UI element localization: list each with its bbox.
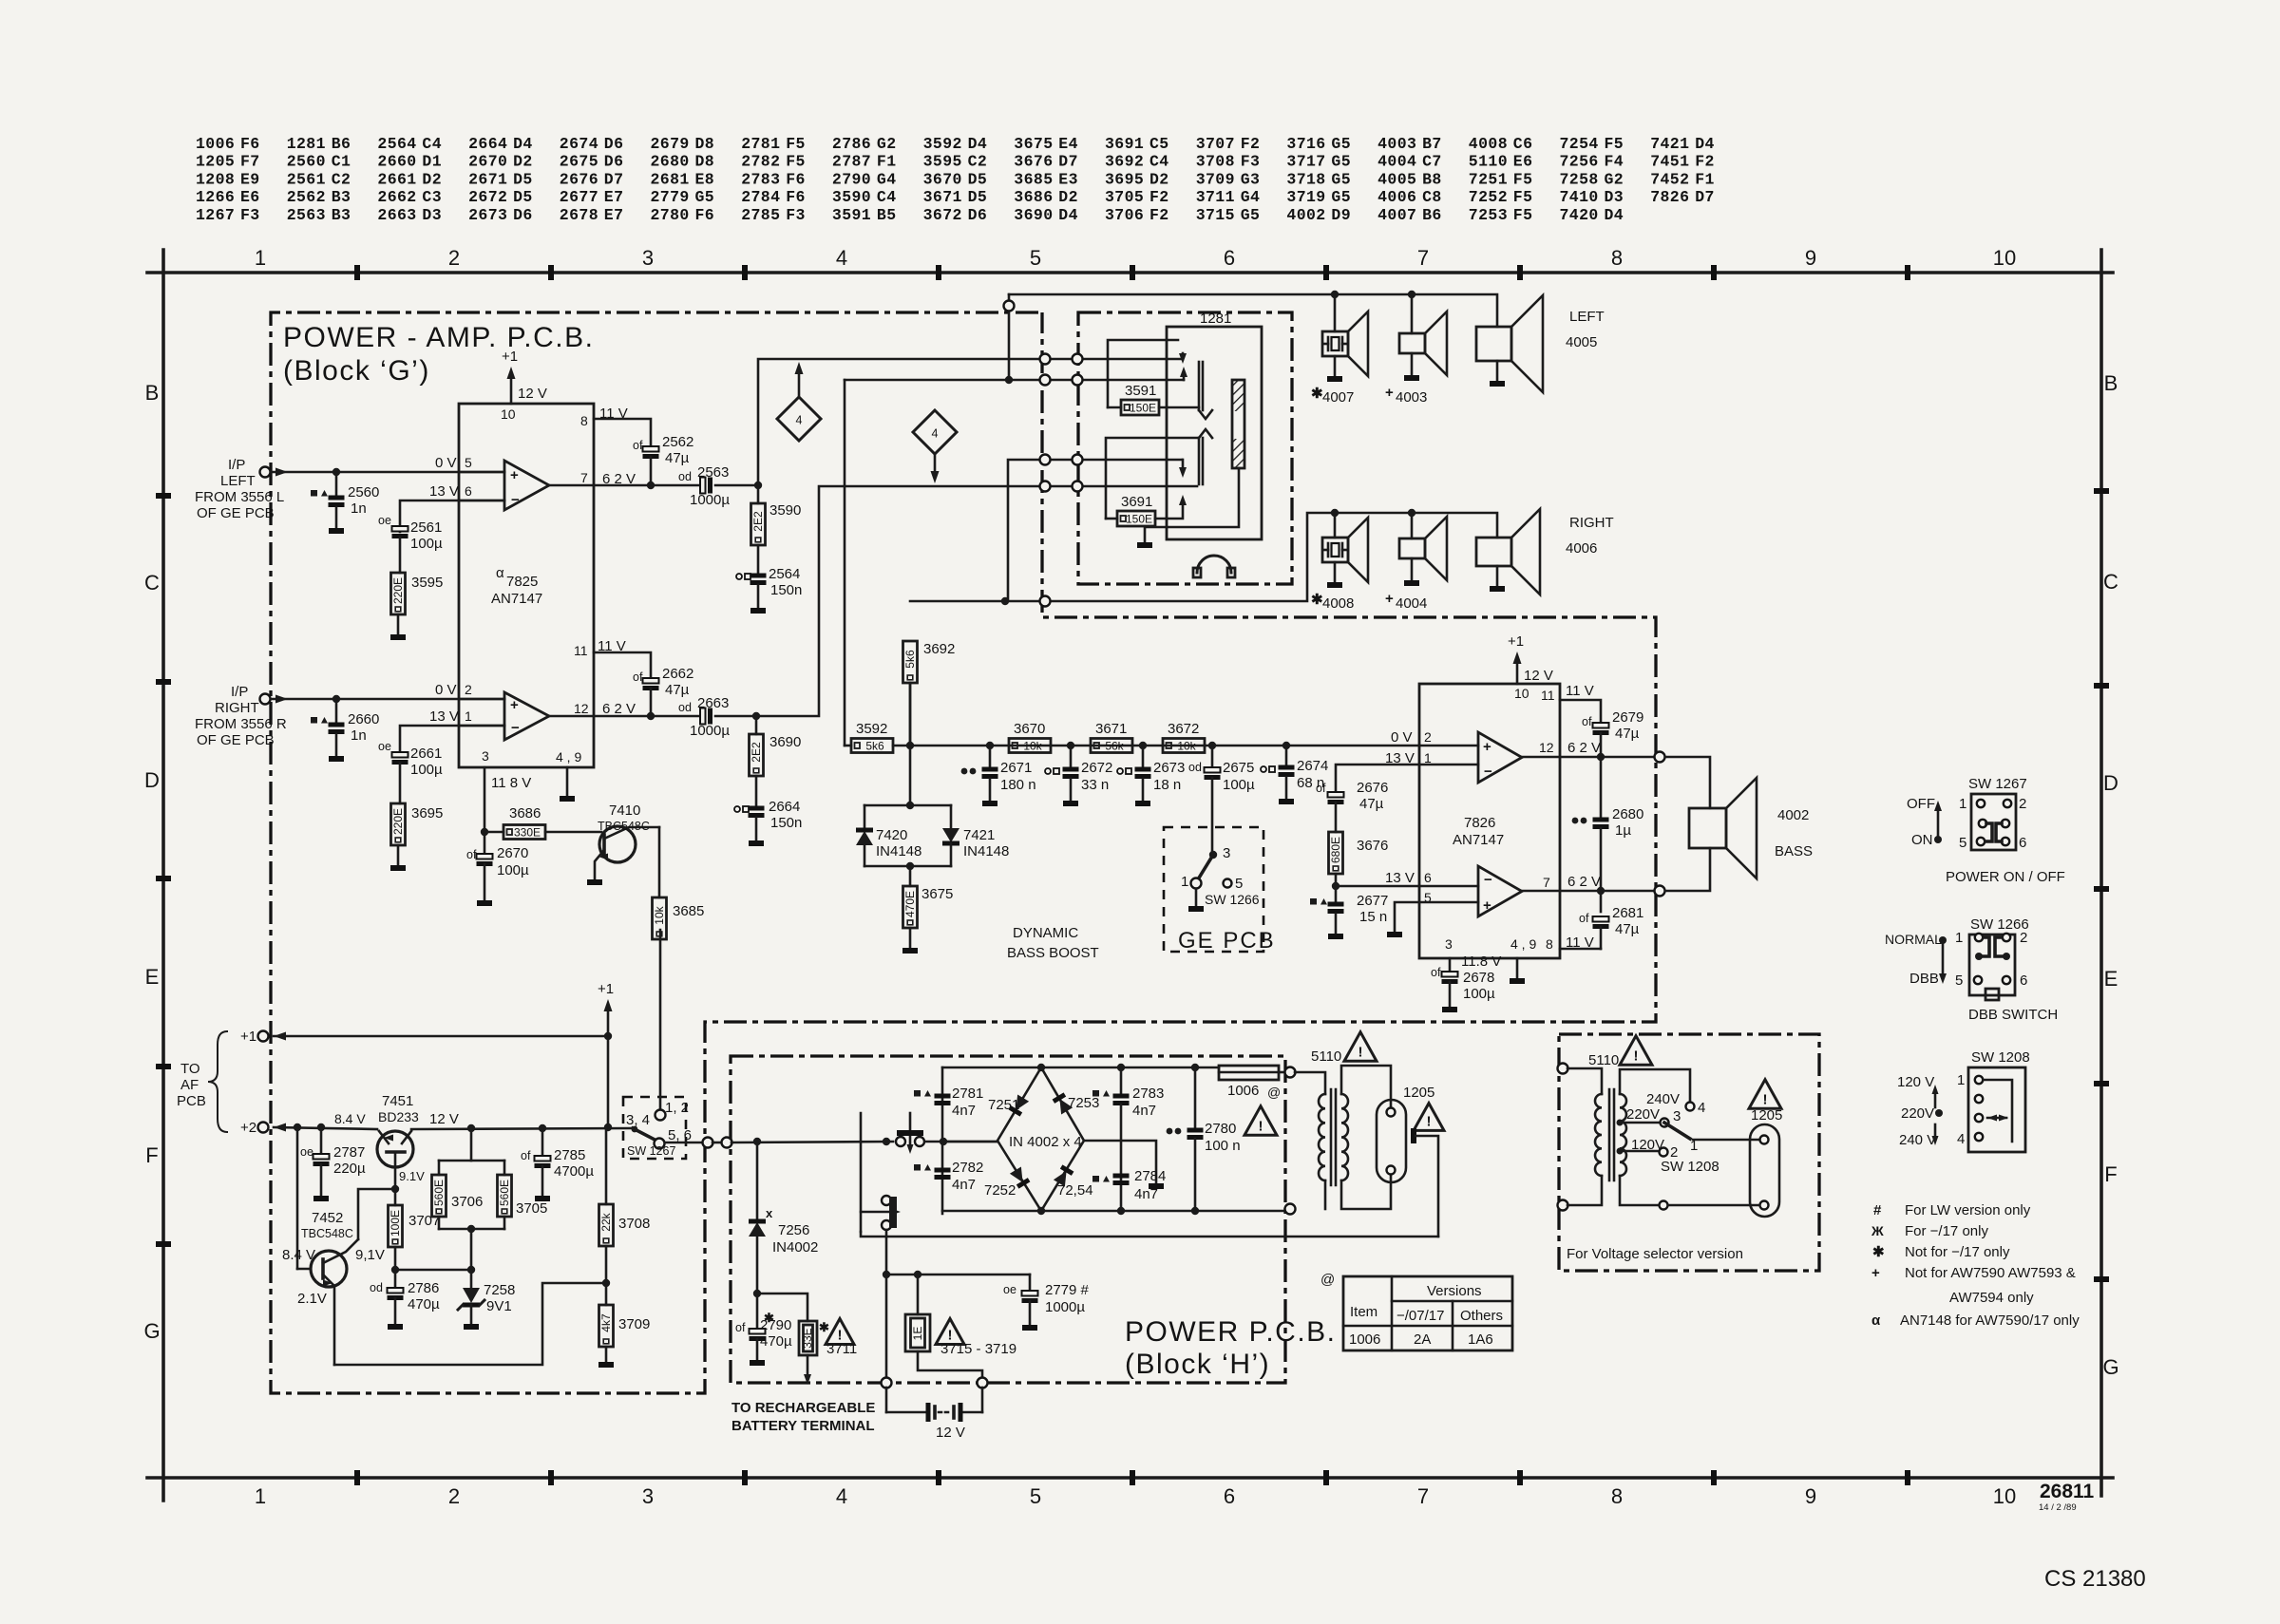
svg-text:7: 7 — [1417, 1484, 1429, 1508]
diode 7420 IN4148 — [864, 805, 866, 828]
svg-text:6: 6 — [2019, 835, 2026, 851]
svg-text:+: + — [510, 697, 519, 713]
svg-text:3715: 3715 — [1196, 206, 1235, 224]
svg-text:2676: 2676 — [560, 170, 598, 188]
bass speaker 4002 — [1689, 808, 1726, 848]
svg-text:C3: C3 — [422, 188, 442, 206]
svg-text:3685: 3685 — [1014, 170, 1053, 188]
svg-text:IN4148: IN4148 — [876, 843, 921, 859]
svg-text:3686: 3686 — [1014, 188, 1053, 206]
plug earth tab — [1411, 1128, 1416, 1143]
svg-text:C8: C8 — [1422, 188, 1442, 206]
pin 4,9 ground — [566, 767, 569, 796]
svg-text:F5: F5 — [786, 135, 806, 153]
POWER-AMP PCB Block G boundary — [271, 312, 1656, 1393]
svg-text:7258: 7258 — [1560, 170, 1599, 188]
svg-text:2785: 2785 — [741, 206, 780, 224]
svg-text:13 V: 13 V — [1385, 870, 1415, 886]
svg-text:3706: 3706 — [451, 1194, 483, 1210]
svg-text:3692: 3692 — [923, 641, 955, 657]
svg-text:2561: 2561 — [287, 170, 326, 188]
op-amp U7825b — [504, 692, 549, 740]
svg-text:3691: 3691 — [1121, 494, 1152, 510]
svg-text:12 V: 12 V — [1524, 668, 1553, 684]
svg-text:7: 7 — [1417, 246, 1429, 270]
capacitor 2677 15n — [1335, 886, 1338, 903]
svg-text:2664: 2664 — [468, 135, 507, 153]
svg-text:4006: 4006 — [1377, 188, 1416, 206]
svg-text:D7: D7 — [604, 170, 624, 188]
svg-text:D6: D6 — [513, 206, 533, 224]
wire right speaker feed (ch2) — [756, 486, 1197, 716]
svg-text:F7: F7 — [240, 153, 260, 171]
svg-text:D9: D9 — [1331, 206, 1351, 224]
svg-text:of: of — [1579, 912, 1589, 925]
svg-text:2664: 2664 — [769, 799, 800, 815]
wire pin11 to 2662 — [594, 652, 651, 676]
svg-text:1: 1 — [465, 708, 472, 724]
svg-text:NORMAL: NORMAL — [1885, 932, 1942, 947]
svg-text:@: @ — [1267, 1085, 1281, 1100]
IC U7825 AN7147 — [459, 404, 594, 767]
svg-text:BD233: BD233 — [378, 1109, 419, 1124]
svg-text:1000µ: 1000µ — [690, 723, 730, 739]
svg-text:F2: F2 — [1241, 135, 1261, 153]
svg-text:1205: 1205 — [196, 153, 235, 171]
svg-text:7420: 7420 — [1560, 206, 1599, 224]
svg-text:3595: 3595 — [923, 153, 962, 171]
svg-text:(Block ‘H’): (Block ‘H’) — [1125, 1349, 1270, 1380]
svg-text:G: G — [2102, 1355, 2118, 1379]
svg-text:2: 2 — [448, 246, 460, 270]
svg-text:220V: 220V — [1626, 1106, 1660, 1123]
svg-text:TBC548C: TBC548C — [598, 820, 650, 833]
svg-text:47µ: 47µ — [1359, 796, 1384, 812]
svg-text:E7: E7 — [604, 188, 624, 206]
svg-text:2: 2 — [1424, 729, 1432, 745]
svg-text:+: + — [1483, 739, 1491, 755]
wire emitter 7452 to 3708/3709 node — [334, 1283, 606, 1365]
svg-text:3671: 3671 — [1095, 721, 1127, 737]
svg-text:4002: 4002 — [1777, 807, 1809, 823]
svg-text:1, 2: 1, 2 — [665, 1100, 689, 1116]
capacitor 2781 4n7 — [914, 1090, 921, 1097]
svg-text:22k: 22k — [599, 1212, 613, 1231]
svg-text:7252: 7252 — [984, 1182, 1016, 1199]
resistor 3690 2E2 — [755, 716, 758, 734]
svg-text:For LW version only: For LW version only — [1905, 1202, 2031, 1218]
svg-text:of: of — [521, 1149, 531, 1162]
svg-text:D2: D2 — [1149, 170, 1169, 188]
svg-text:2680: 2680 — [651, 153, 690, 171]
speaker 4003 — [1411, 294, 1414, 333]
svg-text:2781: 2781 — [741, 135, 780, 153]
svg-text:5: 5 — [1235, 876, 1243, 892]
resistor 3595 220E — [391, 573, 406, 614]
svg-text:SW 1208: SW 1208 — [1971, 1049, 2030, 1066]
jack sleeve ground — [1145, 468, 1239, 542]
resistor 3676 680E — [1329, 832, 1343, 874]
svg-text:D4: D4 — [968, 135, 988, 153]
svg-text:od: od — [678, 470, 692, 483]
svg-text:POWER - AMP. P.C.B.: POWER - AMP. P.C.B. — [283, 322, 594, 353]
svg-text:B7: B7 — [1422, 135, 1442, 153]
wire +2 rail — [274, 1127, 377, 1129]
svg-text:2783: 2783 — [741, 170, 780, 188]
input terminal I/P LEFT — [260, 467, 271, 478]
svg-text:220E: 220E — [391, 577, 405, 604]
svg-text:E8: E8 — [695, 170, 715, 188]
resistor 3691 150E loop — [1106, 438, 1199, 519]
svg-text:0 V: 0 V — [1391, 729, 1413, 746]
svg-text:D2: D2 — [1058, 188, 1078, 206]
svg-text:3716: 3716 — [1286, 135, 1325, 153]
svg-text:12 V: 12 V — [936, 1425, 965, 1441]
svg-text:3: 3 — [1223, 845, 1230, 861]
svg-text:4n7: 4n7 — [1134, 1186, 1158, 1202]
svg-text:13 V: 13 V — [429, 708, 459, 725]
svg-text:✱: ✱ — [1872, 1244, 1885, 1260]
svg-text:4003: 4003 — [1377, 135, 1416, 153]
svg-text:G5: G5 — [1331, 188, 1351, 206]
svg-text:470E: 470E — [903, 891, 917, 917]
svg-text:F3: F3 — [786, 206, 806, 224]
svg-text:3: 3 — [1445, 936, 1453, 952]
zener diode 7258 9V1 — [470, 1270, 473, 1288]
svg-text:3590: 3590 — [832, 188, 871, 206]
svg-text:3707: 3707 — [408, 1213, 440, 1229]
svg-text:5: 5 — [465, 455, 472, 470]
svg-text:0 V: 0 V — [435, 682, 457, 698]
svg-text:8.4 V: 8.4 V — [334, 1111, 366, 1126]
diode 7253 — [1054, 1095, 1073, 1115]
capacitor 2560 1n — [335, 472, 338, 498]
svg-text:SW 1267: SW 1267 — [627, 1144, 675, 1158]
node ladder 2 — [1067, 742, 1074, 749]
svg-text:2672: 2672 — [1081, 760, 1112, 776]
svg-text:−: − — [1484, 764, 1492, 780]
svg-text:3706: 3706 — [1105, 206, 1144, 224]
svg-text:DBB SWITCH: DBB SWITCH — [1968, 1007, 2058, 1023]
svg-text:!: ! — [1763, 1091, 1768, 1107]
node 3676/2677 — [1332, 882, 1339, 890]
svg-text:D5: D5 — [513, 170, 533, 188]
svg-text:4005: 4005 — [1377, 170, 1416, 188]
svg-text:47µ: 47µ — [665, 682, 690, 698]
battery changeover pole — [860, 1113, 863, 1232]
jack plug hatched contact — [1232, 380, 1244, 468]
svg-text:E: E — [145, 965, 160, 989]
svg-text:3711: 3711 — [826, 1341, 857, 1357]
svg-text:oe: oe — [300, 1145, 313, 1159]
svg-text:G5: G5 — [1331, 153, 1351, 171]
svg-text:PCB: PCB — [177, 1093, 206, 1109]
svg-text:BASS BOOST: BASS BOOST — [1007, 945, 1099, 961]
svg-text:D4: D4 — [1695, 135, 1715, 153]
svg-text:2681: 2681 — [1612, 905, 1643, 921]
svg-text:+: + — [1385, 591, 1394, 607]
svg-text:+: + — [1483, 897, 1491, 914]
svg-text:240 V: 240 V — [1899, 1132, 1936, 1148]
svg-text:3675: 3675 — [921, 886, 953, 902]
svg-text:1000µ: 1000µ — [1045, 1299, 1085, 1315]
svg-text:1006: 1006 — [1227, 1083, 1259, 1099]
svg-text:220E: 220E — [391, 808, 405, 835]
svg-text:2671: 2671 — [1000, 760, 1032, 776]
svg-text:3719: 3719 — [1286, 188, 1325, 206]
svg-text:5: 5 — [1030, 1484, 1041, 1508]
node ladder 1 — [986, 742, 994, 749]
diamond ref 4 right — [913, 410, 957, 454]
svg-text:3591: 3591 — [832, 206, 871, 224]
svg-text:3670: 3670 — [923, 170, 962, 188]
svg-text:18 n: 18 n — [1153, 777, 1181, 793]
wire 3592 to ladder — [844, 380, 846, 746]
terminal +2 to AF PCB — [258, 1123, 269, 1133]
svg-text:1006: 1006 — [196, 135, 235, 153]
op-amp U7826b — [1478, 866, 1522, 916]
svg-text:AW7594 only: AW7594 only — [1949, 1290, 2034, 1306]
svg-text:4002: 4002 — [1286, 206, 1325, 224]
svg-text:E: E — [2104, 967, 2118, 991]
svg-text:C4: C4 — [422, 135, 442, 153]
svg-text:10: 10 — [501, 406, 516, 422]
node ladder 3 — [1139, 742, 1147, 749]
svg-text:5: 5 — [1959, 835, 1966, 851]
svg-text:120V: 120V — [1631, 1137, 1664, 1153]
svg-text:150E: 150E — [1126, 513, 1152, 526]
svg-text:2790: 2790 — [760, 1317, 791, 1333]
svg-text:12 V: 12 V — [429, 1111, 459, 1127]
svg-text:2: 2 — [2020, 930, 2027, 946]
svg-text:✱: ✱ — [819, 1320, 829, 1334]
svg-text:2784: 2784 — [741, 188, 780, 206]
svg-text:4n7: 4n7 — [952, 1103, 976, 1119]
svg-text:2670: 2670 — [497, 845, 528, 861]
svg-text:3708: 3708 — [618, 1216, 650, 1232]
svg-text:2681: 2681 — [651, 170, 690, 188]
svg-text:AN7147: AN7147 — [1453, 832, 1504, 848]
svg-text:3676: 3676 — [1357, 838, 1388, 854]
svg-text:LEFT: LEFT — [1569, 309, 1605, 325]
svg-text:D5: D5 — [513, 188, 533, 206]
svg-text:7825: 7825 — [506, 574, 538, 590]
transistor Q7410 TBC548C — [545, 831, 601, 834]
svg-text:7826: 7826 — [1464, 815, 1495, 831]
resistor 3591 150E loop — [1108, 340, 1178, 407]
svg-text:D8: D8 — [695, 135, 715, 153]
svg-text:C2: C2 — [968, 153, 988, 171]
svg-text:2787: 2787 — [333, 1144, 365, 1161]
svg-text:10: 10 — [1993, 246, 2016, 270]
svg-text:3: 3 — [642, 246, 654, 270]
svg-text:GE PCB: GE PCB — [1178, 928, 1276, 954]
supply +1 arrow pin 10 — [510, 378, 513, 404]
svg-text:10: 10 — [1514, 686, 1529, 701]
svg-text:TO: TO — [180, 1061, 200, 1077]
svg-text:7253: 7253 — [1469, 206, 1508, 224]
svg-text:#: # — [1873, 1202, 1882, 1218]
wire output pin12 — [549, 715, 699, 718]
svg-text:11 V: 11 V — [1566, 683, 1594, 699]
svg-text:2E2: 2E2 — [751, 511, 765, 532]
svg-text:1E: 1E — [911, 1327, 924, 1341]
input terminal I/P RIGHT — [260, 694, 271, 705]
svg-text:2779 #: 2779 # — [1045, 1282, 1090, 1298]
svg-text:7452: 7452 — [312, 1210, 343, 1226]
svg-text:B6: B6 — [1422, 206, 1442, 224]
svg-text:2677: 2677 — [560, 188, 598, 206]
svg-text:2560: 2560 — [287, 153, 326, 171]
border frame — [147, 271, 2113, 274]
svg-text:4004: 4004 — [1377, 153, 1416, 171]
capacitor 2678 100u pin3 — [1449, 958, 1452, 971]
svg-text:100µ: 100µ — [497, 862, 529, 878]
svg-text:2678: 2678 — [560, 206, 598, 224]
svg-text:+: + — [510, 467, 519, 483]
svg-text:3695: 3695 — [1105, 170, 1144, 188]
svg-text:4k7: 4k7 — [599, 1313, 613, 1332]
wire right return to jack — [1008, 460, 1182, 601]
output wire pin7 — [1522, 890, 1658, 893]
svg-text:7251: 7251 — [1469, 170, 1508, 188]
svg-text:F3: F3 — [240, 206, 260, 224]
svg-text:Not for AW7590 AW7593: Not for AW7590 AW7593 & — [1905, 1265, 2076, 1281]
svg-text:F2: F2 — [1149, 188, 1169, 206]
svg-text:2563: 2563 — [697, 464, 729, 481]
svg-text:3709: 3709 — [1196, 170, 1235, 188]
pin 3 lead — [484, 767, 486, 832]
svg-text:of: of — [1431, 966, 1441, 979]
op-amp U7825a — [504, 461, 549, 510]
svg-text:8: 8 — [1611, 1484, 1623, 1508]
svg-text:2780: 2780 — [1205, 1121, 1236, 1137]
DBB tap wire 3692 to right rail — [910, 513, 1497, 601]
svg-text:2562: 2562 — [662, 434, 693, 450]
svg-text:!: ! — [1427, 1113, 1432, 1129]
svg-text:B6: B6 — [332, 135, 351, 153]
svg-text:3595: 3595 — [411, 575, 443, 591]
svg-text:4: 4 — [932, 427, 939, 441]
svg-text:2660: 2660 — [348, 711, 379, 727]
selector bottom wire — [1620, 1176, 1659, 1205]
svg-text:D: D — [144, 768, 160, 792]
left speakers rail — [1009, 294, 1497, 327]
svg-text:100µ: 100µ — [1463, 986, 1495, 1002]
svg-text:od: od — [1188, 761, 1202, 774]
svg-text:470µ: 470µ — [408, 1296, 440, 1312]
capacitor 2660 1n — [335, 699, 338, 725]
svg-text:D6: D6 — [604, 135, 624, 153]
svg-text:3592: 3592 — [856, 721, 887, 737]
svg-text:120 V: 120 V — [1897, 1074, 1934, 1090]
wire 3707 to zener — [394, 1247, 397, 1270]
svg-text:1n: 1n — [351, 500, 367, 517]
svg-text:IN4002: IN4002 — [772, 1239, 818, 1256]
svg-text:6: 6 — [2020, 973, 2027, 989]
node base 7451 — [391, 1185, 399, 1193]
svg-text:560E: 560E — [498, 1180, 511, 1206]
svg-text:AF: AF — [180, 1077, 199, 1093]
svg-text:ON: ON — [1911, 832, 1933, 848]
svg-text:2786: 2786 — [408, 1280, 439, 1296]
terminal +1 to AF PCB — [258, 1031, 269, 1042]
pin 4,9 ground — [1516, 958, 1519, 978]
capacitor 2675 100u — [1211, 746, 1214, 767]
svg-text:0 V: 0 V — [435, 455, 457, 471]
svg-text:100 n: 100 n — [1205, 1138, 1241, 1154]
svg-text:1: 1 — [1957, 1072, 1965, 1088]
svg-text:7: 7 — [1543, 875, 1550, 890]
bridge left wire — [943, 1141, 997, 1143]
svg-text:!: ! — [1259, 1118, 1263, 1134]
svg-text:F5: F5 — [1605, 135, 1624, 153]
svg-text:DYNAMIC: DYNAMIC — [1013, 925, 1078, 941]
svg-text:7420: 7420 — [876, 827, 907, 843]
svg-text:6: 6 — [465, 483, 472, 499]
svg-text:3705: 3705 — [516, 1200, 547, 1217]
svg-text:F4: F4 — [1605, 153, 1624, 171]
svg-text:FROM 3556 L: FROM 3556 L — [195, 489, 284, 505]
svg-text:G5: G5 — [1331, 170, 1351, 188]
resistor 3708 22k — [605, 1127, 608, 1204]
svg-text:330E: 330E — [514, 826, 541, 840]
connector pins at PCB boundary — [1040, 354, 1051, 365]
svg-text:4: 4 — [1957, 1131, 1965, 1147]
svg-text:150n: 150n — [770, 582, 802, 598]
svg-text:2678: 2678 — [1463, 970, 1494, 986]
svg-text:4n7: 4n7 — [952, 1177, 976, 1193]
svg-text:7410: 7410 — [609, 803, 640, 819]
svg-text:BATTERY TERMINAL: BATTERY TERMINAL — [731, 1418, 875, 1434]
IC U7826 AN7147 — [1419, 684, 1560, 958]
svg-text:4 , 9: 4 , 9 — [556, 749, 581, 765]
svg-text:−: − — [511, 720, 520, 736]
node ladder 4 — [1208, 742, 1216, 749]
svg-text:1281: 1281 — [287, 135, 326, 153]
svg-text:7410: 7410 — [1560, 188, 1599, 206]
svg-text:2675: 2675 — [560, 153, 598, 171]
wire SW1267 to block H — [665, 1142, 703, 1144]
svg-text:15 n: 15 n — [1359, 909, 1387, 925]
svg-text:CS 21380: CS 21380 — [2044, 1566, 2146, 1592]
svg-text:F2: F2 — [1149, 206, 1169, 224]
wire pin8 — [1560, 948, 1601, 951]
svg-text:C5: C5 — [1149, 135, 1169, 153]
svg-text:@: @ — [1320, 1272, 1335, 1288]
svg-text:11.8 V: 11.8 V — [1461, 954, 1501, 970]
svg-text:TO RECHARGEABLE: TO RECHARGEABLE — [731, 1400, 875, 1416]
svg-text:47µ: 47µ — [1615, 921, 1640, 937]
3685 riser to SW1267 — [659, 930, 662, 1110]
svg-text:4008: 4008 — [1322, 595, 1354, 612]
svg-text:150E: 150E — [1130, 402, 1156, 415]
svg-text:4: 4 — [1698, 1100, 1705, 1116]
svg-text:F5: F5 — [786, 153, 806, 171]
svg-text:47µ: 47µ — [1615, 726, 1640, 742]
svg-text:11: 11 — [1541, 688, 1555, 703]
svg-text:1006: 1006 — [1349, 1331, 1380, 1348]
resistor 3675 470E — [909, 866, 912, 886]
svg-text:D1: D1 — [422, 153, 442, 171]
svg-text:F: F — [145, 1143, 158, 1167]
svg-text:IN4148: IN4148 — [963, 843, 1009, 859]
svg-text:2662: 2662 — [662, 666, 693, 682]
svg-text:G: G — [143, 1319, 160, 1343]
svg-text:3707: 3707 — [1196, 135, 1235, 153]
svg-text:Ж: Ж — [1871, 1223, 1884, 1238]
svg-text:1266: 1266 — [196, 188, 235, 206]
